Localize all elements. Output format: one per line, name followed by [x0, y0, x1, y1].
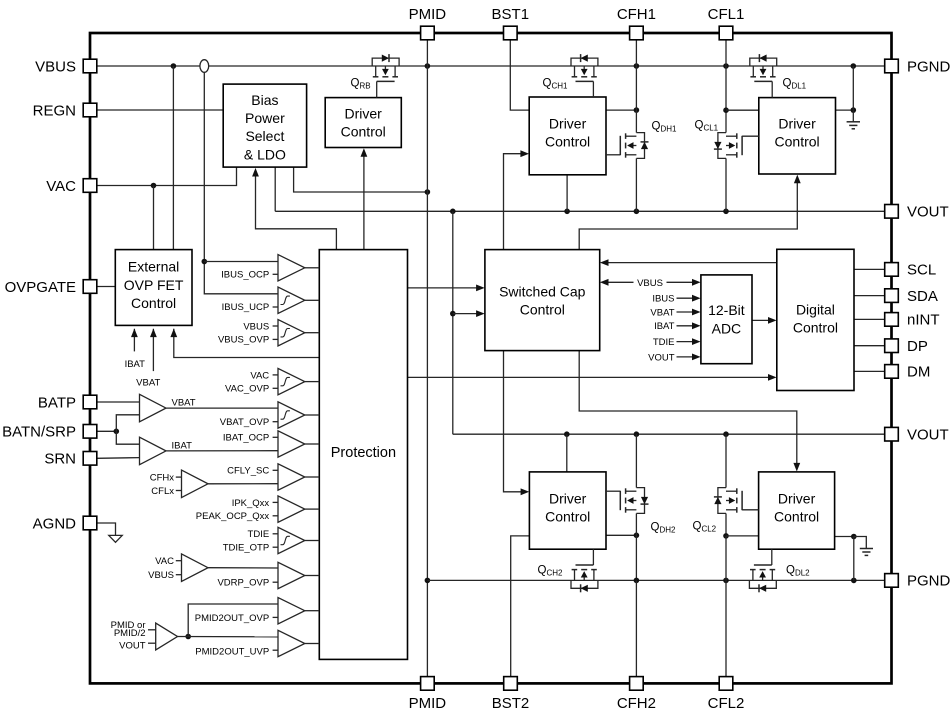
wire Digital Control to nINT pin	[854, 318, 885, 320]
svg-text:PMID2OUT_OVP: PMID2OUT_OVP	[195, 613, 269, 624]
svg-text:Control: Control	[775, 133, 820, 149]
comparator IBUS_OCP	[221, 255, 319, 281]
comparator IPK_Qxx / PEAK_OCP_Qxx	[196, 496, 319, 522]
pin VOUT (right)	[885, 204, 949, 221]
svg-text:Control: Control	[774, 508, 819, 524]
comparator PMID2OUT_UVP	[195, 630, 319, 657]
wire Protection to Bias box (arrow)	[252, 168, 336, 250]
transistor QCL2	[693, 488, 759, 534]
block Driver Control 4	[759, 472, 835, 549]
wire Protection to Digital Control (arrow)	[408, 374, 777, 381]
current sense element on VBUS rail	[200, 60, 209, 73]
svg-text:PEAK_OCP_Qxx: PEAK_OCP_Qxx	[196, 511, 270, 522]
svg-text:PGND: PGND	[907, 58, 951, 75]
svg-text:VDRP_OVP: VDRP_OVP	[217, 578, 269, 589]
pin DP (right)	[885, 338, 928, 355]
pin BST1 (top)	[492, 6, 530, 40]
svg-text:PMID/2: PMID/2	[114, 628, 146, 639]
comparator IBUS_UCP	[222, 287, 320, 313]
svg-text:SCL: SCL	[907, 262, 936, 279]
IC boundary box	[90, 33, 892, 683]
svg-text:CFLY_SC: CFLY_SC	[227, 466, 269, 477]
wire Switched Cap to Driver Control 1 (arrow)	[504, 150, 530, 249]
svg-text:OVP FET: OVP FET	[124, 277, 184, 293]
wire BST1 pin to Driver Control 1	[510, 40, 529, 110]
svg-text:IPK_Qxx: IPK_Qxx	[232, 498, 270, 509]
svg-text:BATN/SRP: BATN/SRP	[2, 424, 76, 441]
pin VBUS	[35, 58, 97, 75]
svg-text:CFLx: CFLx	[151, 486, 174, 497]
block Bias Power Select & LDO	[223, 84, 306, 167]
wire BATN/SRP to amps	[97, 415, 140, 444]
svg-text:Control: Control	[520, 301, 565, 317]
wire Driver Control 4 to ground + PGND	[835, 534, 857, 581]
svg-text:ADC: ADC	[712, 321, 742, 337]
wire ADC to Digital Control (arrow)	[752, 317, 777, 324]
wire IBAT sense into External OVP FET Control (arrow)	[125, 329, 146, 370]
svg-text:IBUS: IBUS	[652, 294, 674, 305]
svg-text:SDA: SDA	[907, 288, 938, 305]
svg-text:REGN: REGN	[33, 102, 76, 119]
svg-text:VBAT: VBAT	[172, 398, 196, 409]
signal ground symbol (AGND)	[109, 535, 122, 542]
wire Driver Control 3 to CFH2 node	[606, 533, 639, 539]
svg-text:Driver: Driver	[778, 115, 816, 131]
svg-text:VOUT: VOUT	[907, 427, 949, 444]
svg-text:Driver: Driver	[549, 490, 587, 506]
wire CFH1 net through QDH1	[635, 66, 637, 211]
svg-text:VBUS_OVP: VBUS_OVP	[218, 335, 269, 346]
amp PMID2OUT sense	[111, 604, 278, 652]
svg-text:PMID: PMID	[409, 695, 447, 712]
wire IBUS to ADC (arrow)	[652, 294, 700, 305]
comparator TDIE_OTP	[223, 527, 320, 553]
wire VBUS-PMID-CFH1-CFL1-PGND top power rail	[97, 63, 886, 69]
wire AGND to signal ground	[97, 523, 116, 535]
comparator VAC_OVP	[225, 368, 319, 394]
svg-text:Driver: Driver	[549, 115, 587, 131]
block Protection	[319, 250, 407, 660]
svg-text:Control: Control	[545, 133, 590, 149]
svg-text:CFH2: CFH2	[617, 695, 656, 712]
wire Driver Control 2 to PGND + ground	[836, 66, 857, 113]
svg-text:12-Bit: 12-Bit	[708, 302, 745, 318]
block Driver Control 2	[759, 98, 836, 174]
svg-text:IBUS_OCP: IBUS_OCP	[221, 270, 269, 281]
comparator PMID2OUT_OVP	[195, 598, 320, 624]
block Driver Control 1	[529, 97, 606, 175]
wire VAC to Bias box	[97, 167, 237, 188]
pin CFL1 (top)	[708, 6, 745, 40]
wire Protection to External OVP FET Control (arrow)	[170, 329, 319, 358]
svg-text:VBUS: VBUS	[35, 58, 76, 75]
wire Switched Cap to Driver Control 3 (arrow)	[504, 351, 530, 496]
wire VBAT sense into External OVP FET Control (arrow)	[136, 329, 160, 389]
svg-text:VAC: VAC	[250, 370, 269, 381]
svg-text:PMID2OUT_UVP: PMID2OUT_UVP	[195, 646, 269, 657]
svg-text:DP: DP	[907, 338, 928, 355]
svg-text:VAC_OVP: VAC_OVP	[225, 384, 269, 395]
wire PMID vertical trunk	[425, 66, 431, 683]
transistor QDH1	[606, 121, 677, 159]
wire Protection to Driver Control QRB (arrow)	[361, 148, 368, 249]
amp CFLY sense (CFHx/CFLx)	[150, 470, 278, 498]
wire CFH2 net through QDH2	[635, 434, 637, 580]
block External OVP FET Control	[115, 250, 192, 326]
ground symbol (top right)	[847, 110, 860, 129]
wire Digital Control to SCL pin	[854, 268, 885, 270]
svg-text:IBUS_UCP: IBUS_UCP	[222, 302, 270, 313]
svg-text:Power: Power	[245, 110, 285, 126]
pin CFL2 (bottom)	[708, 677, 745, 712]
pin DM (right)	[885, 364, 931, 381]
wire VBUS tap to External OVP FET Control	[172, 66, 174, 250]
svg-text:VBAT: VBAT	[650, 307, 674, 318]
svg-text:Protection: Protection	[331, 445, 396, 461]
pin PMID (top)	[409, 6, 447, 40]
svg-text:Bias: Bias	[251, 92, 278, 108]
svg-text:VBUS: VBUS	[243, 321, 269, 332]
wire CFL1 pin down	[725, 40, 727, 66]
wire Digital Control to Switched Cap (arrow)	[600, 259, 777, 266]
transistor QRB	[351, 54, 400, 98]
pin AGND	[33, 515, 97, 532]
comparator CFLY_SC	[227, 464, 319, 490]
svg-text:CFH1: CFH1	[617, 6, 656, 23]
pin VOUT (right)	[885, 427, 949, 444]
wire VAC tap to External OVP FET Control	[153, 186, 155, 250]
pin VAC	[46, 178, 97, 195]
wire BATP to amp	[97, 401, 140, 403]
svg-text:Control: Control	[341, 124, 386, 140]
wire CFL1 net to Driver Control 2	[723, 66, 759, 211]
svg-text:VBUS: VBUS	[637, 278, 663, 289]
svg-text:BST1: BST1	[492, 6, 530, 23]
comparator VBAT_OVP	[220, 402, 320, 428]
wire Digital Control to DM pin	[854, 370, 885, 372]
svg-text:BST2: BST2	[492, 695, 530, 712]
svg-text:OVPGATE: OVPGATE	[5, 279, 76, 296]
wire VOUT to Switched Cap Control (arrow)	[450, 211, 485, 434]
svg-text:SRN: SRN	[44, 451, 76, 468]
comparator IBAT_OCP	[223, 431, 319, 457]
block Driver Control (QRB)	[325, 98, 401, 148]
pin CFH2 (bottom)	[617, 677, 656, 712]
wire PMID-QCH2-CFH2-CFL2-QDL2-PGND bottom power rail	[427, 578, 885, 584]
svg-text:VBUS: VBUS	[148, 570, 174, 581]
wire TDIE to ADC (arrow)	[653, 337, 701, 348]
pin OVPGATE	[5, 279, 97, 296]
svg-text:& LDO: & LDO	[244, 146, 286, 162]
pin PGND (right)	[885, 573, 951, 590]
ground symbol (bottom right)	[854, 537, 873, 556]
svg-text:AGND: AGND	[33, 515, 77, 532]
pin PMID (bottom)	[409, 677, 447, 712]
pin nINT (right)	[885, 312, 940, 329]
wire CFH2 pin up	[635, 580, 637, 683]
svg-text:CFL2: CFL2	[708, 695, 745, 712]
svg-text:Control: Control	[131, 295, 176, 311]
svg-text:DM: DM	[907, 364, 930, 381]
svg-text:Driver: Driver	[345, 106, 383, 122]
amp VDRP sense (VAC/VBUS)	[148, 554, 278, 582]
svg-text:BATP: BATP	[38, 394, 76, 411]
pin BATP	[38, 394, 97, 411]
svg-text:PGND: PGND	[907, 573, 951, 590]
pin SRN	[44, 451, 96, 468]
pin SCL (right)	[885, 262, 936, 279]
wire Bias to PMID net	[294, 167, 431, 195]
pin CFH1 (top)	[617, 6, 656, 40]
svg-text:IBAT_OCP: IBAT_OCP	[223, 433, 269, 444]
pin SDA (right)	[885, 288, 938, 305]
wire CFH1 pin down	[635, 40, 637, 66]
transistor QCH2	[538, 549, 598, 592]
svg-text:External: External	[128, 259, 179, 275]
svg-text:VAC: VAC	[46, 178, 76, 195]
wire Digital Control to SDA pin	[854, 295, 885, 297]
wire Switched Cap to Driver Control 2 (arrow)	[579, 175, 801, 250]
svg-text:VOUT: VOUT	[119, 641, 146, 652]
wire Digital Control to DP pin	[854, 345, 885, 347]
svg-text:Switched Cap: Switched Cap	[499, 283, 586, 299]
svg-text:TDIE: TDIE	[653, 337, 675, 348]
svg-text:TDIE_OTP: TDIE_OTP	[223, 543, 269, 554]
wire Driver Control 3 top to VOUT line	[566, 434, 568, 472]
wire Driver Control 1 bottom to VOUT line	[566, 175, 568, 212]
wire IBUS sense to comparators	[202, 72, 279, 294]
svg-text:VOUT: VOUT	[648, 352, 675, 363]
svg-text:IBAT: IBAT	[654, 321, 675, 332]
pin BST2 (bottom)	[492, 677, 530, 712]
amp VBAT sense (BATP/BATN)	[140, 394, 279, 422]
svg-text:VAC: VAC	[155, 556, 174, 567]
wire REGN to Bias box	[97, 109, 223, 111]
wire VOUT lower line	[453, 431, 886, 437]
wire Protection to Switched Cap Control (arrow)	[408, 285, 485, 292]
svg-text:nINT: nINT	[907, 312, 940, 329]
svg-text:TDIE: TDIE	[248, 529, 270, 540]
pin PGND (right)	[885, 58, 951, 75]
amp IBAT sense (BATN/SRN)	[140, 437, 279, 465]
wire Switched Cap to Driver Control 4 (arrow)	[579, 351, 800, 472]
svg-text:Control: Control	[793, 320, 838, 336]
wire CFL2 net to Driver Control 4	[723, 434, 758, 683]
block Digital Control	[777, 249, 854, 390]
svg-text:IBAT: IBAT	[125, 359, 146, 370]
comparator VDRP_OVP	[217, 562, 319, 588]
wire SRN to amp	[97, 457, 140, 460]
svg-text:CFHx: CFHx	[150, 472, 175, 483]
svg-text:CFL1: CFL1	[708, 6, 745, 23]
svg-text:Digital: Digital	[796, 302, 835, 318]
pin BATN/SRP	[2, 424, 97, 441]
svg-text:VBAT: VBAT	[136, 378, 160, 389]
transistor QDL1	[750, 54, 807, 98]
svg-text:VOUT: VOUT	[907, 204, 949, 221]
block Switched Cap Control	[485, 250, 600, 351]
wire PMID top pin to rail	[426, 40, 428, 66]
comparator VBUS_OVP	[218, 320, 319, 346]
svg-text:PMID: PMID	[409, 6, 447, 23]
wire OVPGATE to External OVP FET Control	[97, 286, 116, 288]
block Driver Control 3	[529, 472, 606, 549]
svg-text:IBAT: IBAT	[172, 440, 193, 451]
pin REGN	[33, 102, 97, 119]
wire Driver Control 1 to CFH1 node	[606, 107, 639, 113]
wire VOUT upper line	[275, 209, 886, 215]
wire Bias to VOUT line	[274, 167, 276, 211]
wire IBAT to ADC (arrow)	[654, 321, 701, 332]
wire VBUS to ADC and Switched Cap (arrows)	[600, 278, 701, 289]
transistor QDL2	[749, 549, 810, 592]
svg-text:Control: Control	[545, 508, 590, 524]
svg-text:VBAT_OVP: VBAT_OVP	[220, 417, 269, 428]
wire BST2 pin to Driver Control 3	[511, 536, 530, 683]
svg-text:Select: Select	[245, 128, 284, 144]
transistor QDH2	[606, 488, 676, 535]
transistor QCH1	[543, 54, 598, 97]
wire VOUT to ADC (arrow)	[648, 352, 700, 363]
transistor QCL1	[695, 120, 759, 159]
svg-text:Driver: Driver	[778, 490, 816, 506]
block 12-Bit ADC	[701, 275, 752, 364]
wire VBAT to ADC (arrow)	[650, 307, 700, 318]
